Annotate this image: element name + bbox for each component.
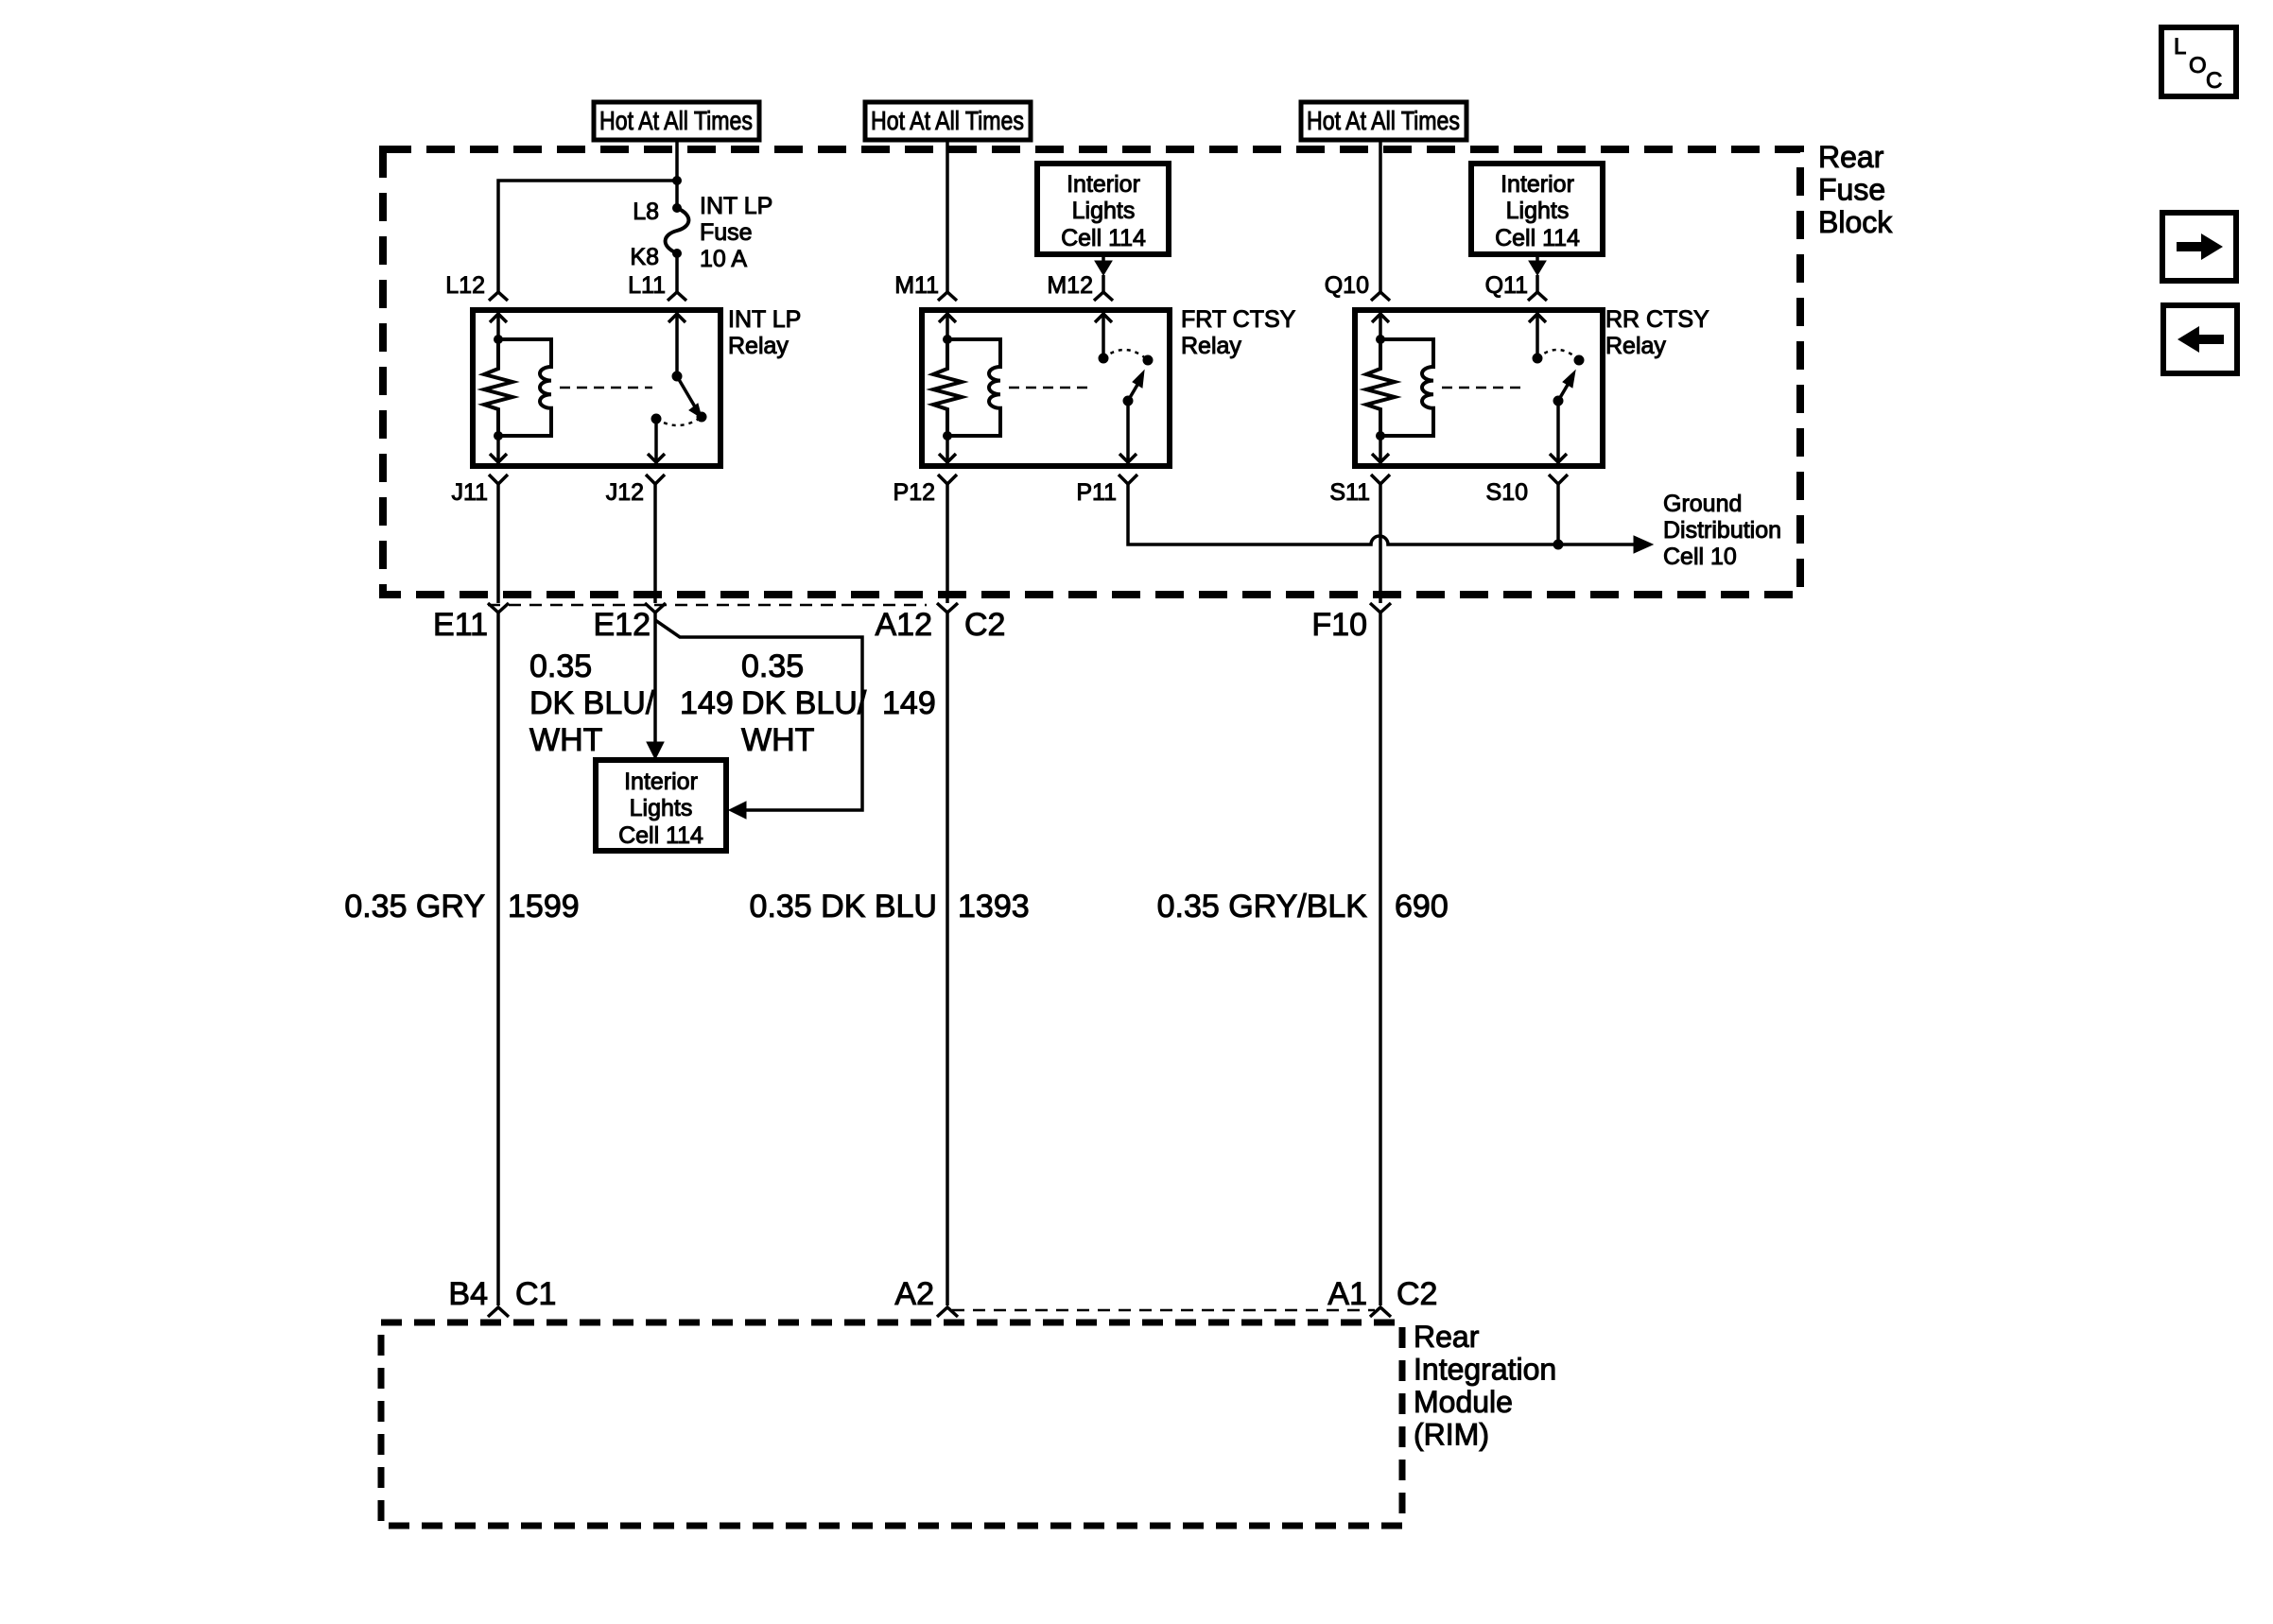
svg-text:Cell 114: Cell 114 — [1495, 225, 1580, 251]
connector boundary thin dashed line (RIM C2) — [952, 1309, 1375, 1312]
svg-text:DK BLU/: DK BLU/ — [741, 685, 867, 721]
switch feed from pin (x=716) — [668, 313, 685, 376]
relay K3 RR CTSY Relay box — [1355, 310, 1603, 466]
pin label M12 — [1047, 272, 1093, 299]
switch feed from pin (x=1167) — [1095, 313, 1112, 358]
svg-text:0.35: 0.35 — [741, 648, 804, 684]
wire F10 to A1 (0.35 GRY/BLK 690) — [1379, 613, 1382, 1305]
ground bus arrow to Ground Distribution — [1634, 536, 1653, 553]
svg-text:Fuse: Fuse — [700, 219, 753, 246]
svg-text:K8: K8 — [630, 244, 659, 270]
relay K3 label RR CTSY Relay — [1605, 306, 1709, 359]
svg-text:Distribution: Distribution — [1663, 517, 1781, 544]
connector label A12 — [876, 607, 933, 643]
switch NO contact node — [1574, 355, 1584, 365]
switch armature (arrow) — [677, 376, 702, 418]
svg-text:Rear: Rear — [1414, 1320, 1480, 1354]
wire coil to bottom pin — [939, 436, 956, 463]
svg-text:Q11: Q11 — [1485, 272, 1528, 299]
wire E11 to B4 (0.35 GRY 1599) — [496, 613, 500, 1305]
svg-text:INT LP: INT LP — [728, 306, 801, 333]
wire E12 to Interior Lights (arrow down) — [647, 613, 664, 759]
pin connector S10 (exit) — [1549, 475, 1568, 484]
Rear Fuse Block label — [1818, 140, 1893, 239]
relay coil feed (pin x=1002) — [939, 313, 956, 339]
pin label S10 — [1486, 479, 1528, 506]
switch common node — [672, 371, 682, 381]
switch contact node (arm end) — [697, 412, 706, 422]
junction node coil bottom — [1377, 432, 1385, 441]
svg-text:Hot At All Times: Hot At All Times — [599, 106, 753, 135]
svg-text:(RIM): (RIM) — [1414, 1418, 1489, 1452]
svg-text:P12: P12 — [894, 479, 935, 506]
wire P12 to A12 — [946, 484, 949, 603]
wire label 0.35 GRY — [344, 889, 485, 924]
svg-text:Block: Block — [1818, 205, 1893, 239]
pin label J11 — [452, 479, 488, 506]
connector E12 (exit from fuse block) — [645, 603, 666, 613]
svg-text:L8: L8 — [633, 199, 659, 225]
relay K2 label FRT CTSY Relay — [1181, 306, 1296, 359]
wire label 0.35 DK BLU — [750, 889, 937, 924]
arrow into pin (x=1626) — [1529, 261, 1546, 275]
svg-text:L: L — [2174, 34, 2186, 60]
wire switch pivot down — [1550, 401, 1567, 463]
wire switch output down — [648, 419, 665, 463]
svg-text:Ground: Ground — [1663, 491, 1742, 517]
pin connector Q11 (entry) — [1528, 292, 1547, 301]
svg-text:C2: C2 — [964, 607, 1005, 643]
svg-text:1599: 1599 — [508, 889, 580, 924]
switch fixed contact node — [1533, 354, 1542, 363]
svg-text:Hot At All Times: Hot At All Times — [1307, 106, 1460, 135]
svg-text:P11: P11 — [1076, 479, 1117, 506]
pin connector L11 (entry) — [668, 292, 686, 301]
svg-text:B4: B4 — [448, 1276, 488, 1312]
junction node coil top — [495, 336, 503, 344]
wire Hot2 to M11 — [946, 140, 949, 292]
svg-text:0.35 GRY/BLK: 0.35 GRY/BLK — [1157, 889, 1368, 924]
pin label P11 — [1076, 479, 1117, 506]
connector B4 (entry to RIM) — [488, 1307, 509, 1317]
relay coil feed (pin x=527) — [490, 313, 507, 339]
circuit number 1599 — [508, 889, 580, 924]
connector label E11 — [433, 607, 488, 643]
svg-text:C1: C1 — [515, 1276, 556, 1312]
legend LOC box — [2161, 27, 2236, 96]
svg-text:10 A: 10 A — [700, 246, 747, 272]
svg-text:Lights: Lights — [1072, 198, 1136, 224]
power label box Hot At All Times 2 — [865, 102, 1031, 140]
svg-text:Fuse: Fuse — [1818, 173, 1885, 207]
connector E11 (exit from fuse block) — [488, 603, 509, 613]
wire branch to L12 — [498, 181, 677, 292]
svg-text:L12: L12 — [445, 272, 485, 299]
pin label M11 — [894, 272, 939, 299]
junction node at fuse top branch — [673, 177, 682, 185]
svg-text:690: 690 — [1395, 889, 1449, 924]
callout box Interior Lights Cell 114 (x=1556) — [1471, 164, 1603, 254]
circuit number 149 (right) — [882, 685, 936, 721]
coil winding — [947, 339, 1000, 436]
switch pivot node — [1553, 396, 1563, 406]
junction node coil bottom — [495, 432, 503, 441]
svg-text:Q10: Q10 — [1325, 272, 1369, 299]
svg-text:0.35 GRY: 0.35 GRY — [344, 889, 485, 924]
wire A12 to A2 (0.35 DK BLU 1393) — [946, 613, 949, 1305]
svg-text:Relay: Relay — [1605, 333, 1666, 359]
svg-text:1393: 1393 — [958, 889, 1030, 924]
svg-text:A1: A1 — [1327, 1276, 1367, 1312]
actuation dashed link — [1009, 387, 1094, 389]
fuse F INT LP 10A (S-curve element) — [666, 204, 689, 258]
svg-text:Cell 10: Cell 10 — [1663, 544, 1737, 570]
coil winding — [1380, 339, 1433, 436]
svg-text:A12: A12 — [876, 607, 933, 643]
svg-text:Cell 114: Cell 114 — [1061, 225, 1146, 251]
pin connector P12 (exit) — [938, 475, 957, 484]
connector label E12 — [594, 607, 651, 643]
connector A2 (entry to RIM) — [937, 1307, 958, 1317]
wire label 0.35 DK BLU/WHT (left) — [529, 648, 655, 758]
svg-text:M12: M12 — [1047, 272, 1093, 299]
svg-text:L11: L11 — [628, 272, 666, 299]
fuse pin label L8 — [633, 199, 659, 225]
wire J11 to E11 — [496, 484, 500, 603]
connector label A1 — [1327, 1276, 1367, 1312]
connector label A2 — [894, 1276, 934, 1312]
wire switch pivot down — [1119, 401, 1136, 463]
callout box Interior Lights Cell 114 (middle) — [596, 760, 726, 851]
wire label 0.35 GRY/BLK — [1157, 889, 1368, 924]
svg-text:O: O — [2189, 53, 2207, 78]
pin connector M11 (entry) — [938, 292, 957, 301]
power label box Hot At All Times 3 — [1301, 102, 1466, 140]
svg-text:DK BLU/: DK BLU/ — [529, 685, 655, 721]
pin label S11 — [1329, 479, 1370, 506]
connector A1 (entry to RIM) — [1370, 1307, 1391, 1317]
junction node coil bottom — [944, 432, 952, 441]
svg-text:Lights: Lights — [1506, 198, 1570, 224]
svg-text:0.35 DK BLU: 0.35 DK BLU — [750, 889, 937, 924]
svg-text:M11: M11 — [894, 272, 939, 299]
switch fixed contact node — [1099, 354, 1108, 363]
svg-text:Cell 114: Cell 114 — [618, 822, 703, 849]
pin connector M12 (entry) — [1094, 292, 1113, 301]
pin label Q10 — [1325, 272, 1369, 299]
resistor (relay coil suppression) — [484, 339, 512, 436]
svg-text:Integration: Integration — [1414, 1353, 1556, 1387]
relay K1 INT LP Relay box — [473, 310, 720, 466]
legend forward arrow — [2162, 213, 2236, 281]
connector label C1 (bottom) — [515, 1276, 556, 1312]
svg-text:Rear: Rear — [1818, 140, 1884, 174]
switch armature (arrow) — [1128, 371, 1144, 401]
svg-text:F10: F10 — [1311, 607, 1367, 643]
wire Interior Lights to pin (x=1626) — [1536, 254, 1539, 292]
Rear Integration Module boundary (dashed) — [381, 1322, 1402, 1526]
pin connector P11 (exit) — [1119, 475, 1137, 484]
actuation dashed link — [560, 387, 652, 389]
connector boundary thin dashed line (C2 connector top) — [488, 604, 927, 607]
svg-text:C2: C2 — [1397, 1276, 1437, 1312]
wire E12 branch right/down to Interior Lights side arrow — [655, 620, 862, 819]
svg-text:INT LP: INT LP — [700, 193, 772, 219]
switch feed from pin (x=1626) — [1529, 313, 1546, 358]
wire coil to bottom pin — [490, 436, 507, 463]
pin label Q11 — [1485, 272, 1528, 299]
circuit number 690 — [1395, 889, 1449, 924]
callout box Interior Lights Cell 114 (x=1097) — [1037, 164, 1169, 254]
svg-text:WHT: WHT — [529, 722, 602, 758]
switch pivot node — [1123, 396, 1133, 406]
svg-text:149: 149 — [882, 685, 936, 721]
wire Hot1 to fuse (vertical, x=716) — [675, 140, 679, 208]
fuse value label INT LP Fuse 10 A — [700, 193, 772, 272]
svg-text:A2: A2 — [894, 1276, 934, 1312]
contact travel dotted arc — [1537, 350, 1579, 360]
relay K2 FRT CTSY Relay box — [922, 310, 1170, 466]
Rear Fuse Block boundary (dashed) — [383, 149, 1800, 595]
wire label 0.35 DK BLU/WHT (right) — [741, 648, 867, 758]
switch NO contact node — [1143, 355, 1153, 365]
svg-text:Module: Module — [1414, 1385, 1513, 1419]
pin connector L12 (entry) — [489, 292, 508, 301]
pin connector J11 (exit) — [489, 475, 508, 484]
junction node S10/ground bus — [1553, 540, 1563, 549]
svg-text:Relay: Relay — [728, 333, 789, 359]
Rear Integration Module label — [1414, 1320, 1556, 1452]
connector label C2 (top) — [964, 607, 1005, 643]
pin connector S11 (exit) — [1371, 475, 1390, 484]
wire fuse to L11 — [675, 253, 679, 292]
circuit number 1393 — [958, 889, 1030, 924]
contact travel dotted arc — [1103, 350, 1148, 360]
junction node coil top — [944, 336, 952, 344]
svg-text:E12: E12 — [594, 607, 651, 643]
connector A12 (exit from fuse block) — [937, 603, 958, 613]
circuit number 149 (left) — [680, 685, 734, 721]
pin connector Q10 (entry) — [1371, 292, 1390, 301]
svg-text:S10: S10 — [1486, 479, 1528, 506]
arrow into pin (x=1167) — [1095, 261, 1112, 275]
switch armature (arrow) — [1558, 371, 1575, 401]
pin label P12 — [894, 479, 935, 506]
wire J12 to E12 — [653, 484, 657, 603]
svg-text:WHT: WHT — [741, 722, 814, 758]
svg-text:Interior: Interior — [624, 769, 698, 795]
actuation dashed link — [1442, 387, 1524, 389]
wire Interior Lights to pin (x=1167) — [1102, 254, 1105, 292]
wire Hot3 to Q10 — [1379, 140, 1382, 292]
relay coil feed (pin x=1460) — [1372, 313, 1389, 339]
svg-text:J12: J12 — [606, 479, 644, 506]
fuse pin label K8 — [630, 244, 659, 270]
coil winding — [498, 339, 551, 436]
connector F10 (exit from fuse block) — [1370, 603, 1391, 613]
svg-text:0.35: 0.35 — [529, 648, 592, 684]
wire S11 to F10 — [1379, 484, 1382, 603]
svg-text:Lights: Lights — [630, 795, 693, 821]
svg-text:Hot At All Times: Hot At All Times — [871, 106, 1024, 135]
svg-text:Relay: Relay — [1181, 333, 1241, 359]
svg-text:E11: E11 — [433, 607, 488, 643]
junction node coil top — [1377, 336, 1385, 344]
switch output node — [651, 414, 661, 423]
svg-text:J11: J11 — [452, 479, 488, 506]
wire coil to bottom pin — [1372, 436, 1389, 463]
pin label L12 — [445, 272, 485, 299]
pin label J12 — [606, 479, 644, 506]
power label box Hot At All Times 1 — [594, 102, 759, 140]
wire P11 to ground bus (with hop over S11 wire) — [1128, 484, 1636, 544]
pin label L11 — [628, 272, 666, 299]
pin connector J12 (exit) — [646, 475, 665, 484]
legend back arrow — [2163, 305, 2237, 373]
svg-text:149: 149 — [680, 685, 734, 721]
svg-text:Interior: Interior — [1067, 171, 1140, 198]
resistor (relay coil suppression) — [1366, 339, 1395, 436]
connector label B4 — [448, 1276, 488, 1312]
svg-text:C: C — [2206, 68, 2222, 94]
contact travel dotted arc — [656, 417, 702, 425]
svg-text:RR CTSY: RR CTSY — [1605, 306, 1709, 333]
label Ground Distribution Cell 10 — [1663, 491, 1781, 570]
resistor (relay coil suppression) — [933, 339, 962, 436]
connector label F10 — [1311, 607, 1367, 643]
connector label C2 (bottom) — [1397, 1276, 1437, 1312]
svg-text:S11: S11 — [1329, 479, 1370, 506]
relay K1 label INT LP Relay — [728, 306, 801, 359]
svg-text:FRT CTSY: FRT CTSY — [1181, 306, 1296, 333]
wire S10 down to ground bus — [1556, 484, 1560, 544]
svg-text:Interior: Interior — [1501, 171, 1574, 198]
